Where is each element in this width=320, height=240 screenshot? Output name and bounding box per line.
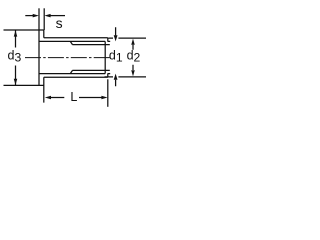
svg-text:d3: d3: [8, 49, 22, 65]
svg-text:d2: d2: [127, 48, 141, 64]
svg-text:s: s: [56, 15, 63, 31]
svg-text:d1: d1: [109, 48, 123, 64]
svg-text:L: L: [70, 90, 77, 104]
